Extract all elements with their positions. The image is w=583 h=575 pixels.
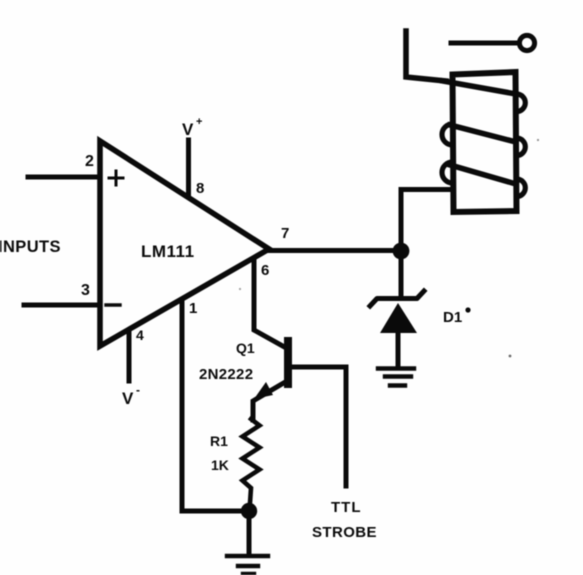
resistor R1 <box>243 419 260 503</box>
wire pin4 V- supply <box>127 330 132 381</box>
node STROBE label <box>312 524 377 541</box>
value label LM111 <box>141 242 195 261</box>
wire base to strobe <box>290 367 346 486</box>
coil winding turn 2 <box>450 125 516 142</box>
coil bump left 1 <box>442 124 453 145</box>
wire junction to ground <box>247 516 252 554</box>
ground (under diode) <box>378 369 414 386</box>
pin number 4 <box>136 327 144 343</box>
svg-text:R1: R1 <box>210 433 228 449</box>
node output junction dot <box>393 243 410 260</box>
wire output node down to diode <box>399 251 404 296</box>
value label R1 <box>210 433 228 449</box>
relay contact terminal circle <box>519 35 534 50</box>
wire emitter <box>253 381 287 420</box>
pin number 3 <box>81 282 90 299</box>
svg-text:V: V <box>122 389 134 408</box>
coil winding turn 1 <box>443 81 516 94</box>
svg-text:1: 1 <box>189 300 197 317</box>
plus input marker <box>109 171 123 185</box>
svg-text:3: 3 <box>81 282 90 299</box>
diode D1 anode triangle <box>380 303 417 333</box>
svg-text:LM111: LM111 <box>141 242 195 261</box>
svg-text:6: 6 <box>261 262 269 279</box>
wire pin8 V+ supply <box>186 140 191 196</box>
minus input marker <box>106 303 120 306</box>
coil winding turn 3 <box>450 165 516 184</box>
wire pin1 to ground junction <box>182 300 247 511</box>
svg-text:2N2222: 2N2222 <box>199 366 253 383</box>
svg-text:8: 8 <box>196 180 204 197</box>
transistor Q2 base bar <box>284 341 292 384</box>
pin number 1 <box>189 300 197 317</box>
value label 2N2222 <box>199 366 253 383</box>
wire pin3 input <box>24 303 100 308</box>
node TTL label <box>331 499 362 516</box>
svg-text:2: 2 <box>85 153 94 170</box>
wire pin7 output <box>269 248 399 253</box>
coil bump right 3 <box>517 179 526 197</box>
pin number 7 <box>281 225 289 242</box>
value label Q1 <box>236 340 255 356</box>
coil bump right 1 <box>517 94 526 112</box>
node V- label <box>122 383 140 408</box>
svg-text:Q1: Q1 <box>236 340 255 356</box>
pin number 8 <box>196 180 204 197</box>
svg-text:-: - <box>136 383 140 397</box>
wire diode to ground <box>396 333 401 367</box>
emitter arrow <box>254 382 273 399</box>
op-amp U1 LM111 comparator triangle <box>100 141 269 346</box>
svg-text:+: + <box>196 116 202 128</box>
pin number 6 <box>261 262 269 279</box>
value label D1* <box>443 307 471 326</box>
wire pin6 to transistor collector <box>254 259 288 349</box>
node INPUTS label <box>0 238 61 256</box>
coil bump left 2 <box>442 162 453 183</box>
svg-text:4: 4 <box>136 327 144 343</box>
svg-text:1K: 1K <box>211 457 229 473</box>
svg-text:D1: D1 <box>443 309 462 326</box>
node V+ label <box>182 116 202 139</box>
relay coil body rectangle <box>453 72 517 212</box>
wire pin2 input <box>28 175 100 180</box>
svg-text:7: 7 <box>281 225 289 242</box>
value label 1K <box>211 457 229 473</box>
relay contact arm wire <box>451 41 518 46</box>
svg-text:STROBE: STROBE <box>312 524 377 541</box>
svg-text:TTL: TTL <box>331 499 362 516</box>
svg-text:V: V <box>182 120 194 139</box>
wire output node up to relay coil <box>401 190 452 252</box>
svg-text:INPUTS: INPUTS <box>0 238 61 256</box>
node junction dot R1/pin1 <box>241 503 257 519</box>
ground (bottom center) <box>227 556 268 574</box>
pin number 2 <box>85 153 94 170</box>
coil bump right 2 <box>517 138 526 156</box>
wire relay top feed stub <box>406 31 446 81</box>
diode D1 cathode bar (zener hooks) <box>370 291 424 306</box>
